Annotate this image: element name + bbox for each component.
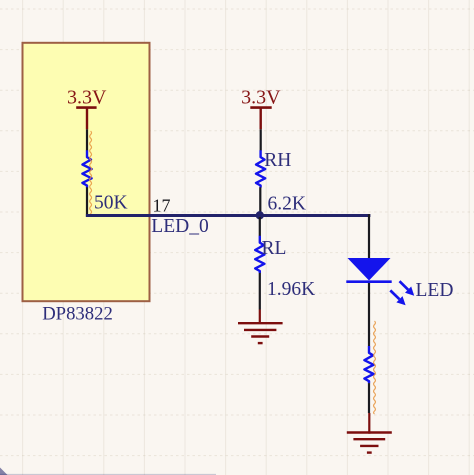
svg-text:50K: 50K — [94, 193, 128, 214]
svg-text:LED_0: LED_0 — [151, 216, 208, 237]
svg-text:3.3V: 3.3V — [241, 86, 281, 108]
svg-text:1.96K: 1.96K — [267, 279, 315, 300]
svg-text:RL: RL — [262, 238, 287, 259]
svg-text:LED: LED — [416, 280, 454, 301]
svg-text:RH: RH — [264, 150, 291, 171]
svg-text:DP83822: DP83822 — [42, 303, 113, 324]
svg-text:17: 17 — [153, 196, 171, 216]
svg-text:6.2K: 6.2K — [268, 194, 306, 215]
svg-text:3.3V: 3.3V — [67, 86, 107, 108]
